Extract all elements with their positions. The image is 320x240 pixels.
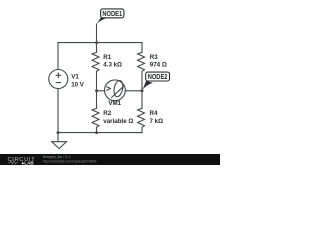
node tag NODE2 [142, 72, 169, 91]
wire bottom rail [58, 132, 142, 134]
svg-text:7 kΩ: 7 kΩ [150, 118, 164, 125]
voltmeter VM1 [105, 80, 126, 101]
wire R2 bottom [96, 127, 98, 132]
svg-text:NODE2: NODE2 [148, 74, 168, 81]
wire R3 bottom [141, 71, 143, 91]
junction dot left of VM1 [95, 89, 98, 92]
wire VM1 right [125, 90, 142, 92]
resistor R1 [92, 52, 99, 71]
svg-text:Deeppiy_fcp / 2.1: Deeppiy_fcp / 2.1 [43, 155, 70, 159]
voltage source V1 [49, 70, 68, 89]
junction dot R2 bottom [95, 131, 98, 134]
svg-text:R4: R4 [150, 110, 158, 117]
wire R3 top [141, 43, 143, 53]
svg-text:▸LAB: ▸LAB [21, 160, 34, 165]
wire VM1 left [97, 90, 105, 92]
node tag NODE1 [96, 9, 123, 24]
ground [52, 133, 67, 149]
junction dot at node1 top rail [95, 41, 98, 44]
wire top rail [58, 43, 142, 70]
svg-text:variable Ω: variable Ω [103, 118, 133, 125]
logo circuitlab [8, 157, 36, 166]
wire V1 bottom [57, 89, 59, 133]
wire R4 bottom [141, 127, 143, 132]
svg-text:V1: V1 [71, 73, 79, 80]
resistor R4 [138, 108, 145, 127]
wire node1 stub [96, 24, 98, 43]
svg-text:R1: R1 [103, 54, 111, 61]
svg-text:974 Ω: 974 Ω [150, 61, 167, 68]
svg-text:4.3 kΩ: 4.3 kΩ [103, 61, 122, 68]
wire R1 bottom [96, 71, 98, 91]
wire R1 top [96, 43, 98, 53]
svg-text:http://circuitlab.com/c/pahq62: http://circuitlab.com/c/pahq627d639 [43, 159, 97, 163]
svg-text:R2: R2 [103, 110, 111, 117]
wire R2 top [96, 91, 98, 109]
junction dot ground [57, 131, 60, 134]
watermark bar [0, 154, 220, 165]
svg-text:NODE1: NODE1 [102, 11, 122, 18]
svg-text:10 V: 10 V [71, 81, 85, 88]
svg-text:R3: R3 [150, 54, 158, 61]
svg-text:VM1: VM1 [108, 100, 121, 107]
resistor R2 [92, 108, 99, 127]
wire R4 top [141, 91, 143, 109]
junction dot node2 [141, 89, 144, 92]
resistor R3 [138, 52, 145, 71]
